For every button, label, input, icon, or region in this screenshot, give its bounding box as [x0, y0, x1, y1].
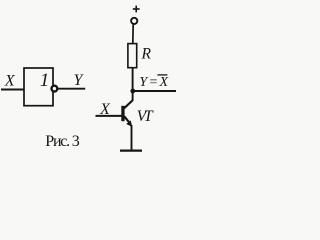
svg-text:R: R: [140, 46, 151, 63]
svg-text:Y: Y: [73, 72, 84, 89]
svg-text:VT: VT: [137, 108, 154, 125]
svg-text:Рис. 3: Рис. 3: [45, 133, 80, 150]
svg-text:Y=X: Y=X: [139, 75, 168, 90]
svg-text:1: 1: [40, 70, 50, 91]
svg-text:X: X: [99, 101, 111, 118]
svg-text:X: X: [4, 72, 16, 89]
